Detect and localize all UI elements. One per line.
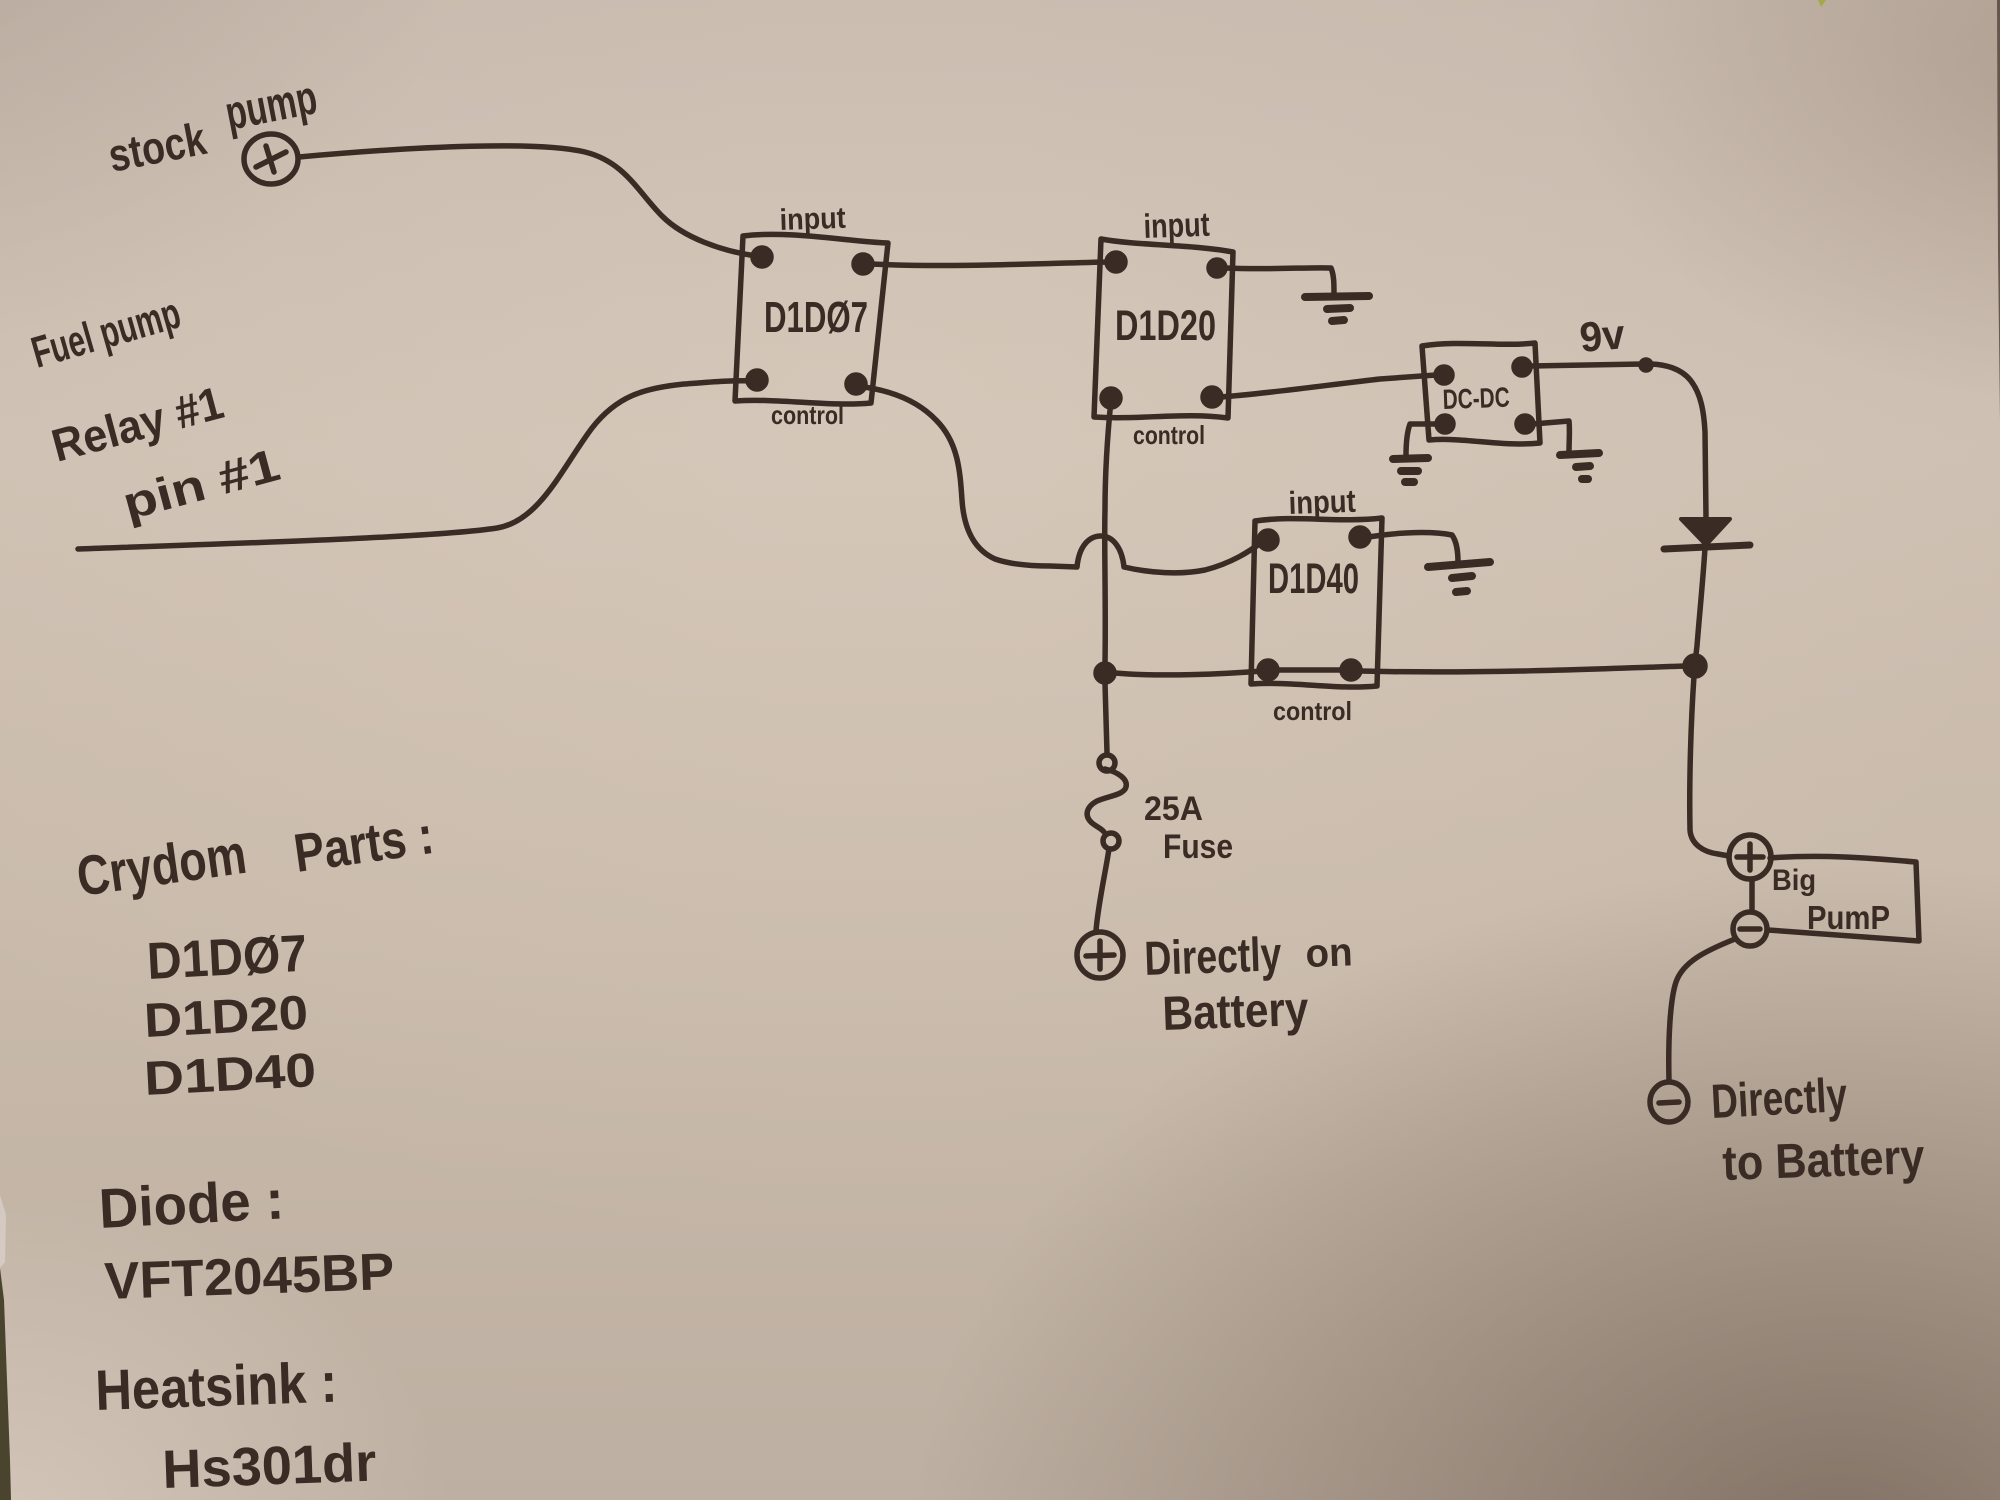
U4 pin out-right (1514, 359, 1530, 375)
diode D1 (cathode down) (1681, 519, 1730, 545)
wire D1D07 input-right to D1D20 input-left (871, 262, 1108, 266)
converter U4 DC-DC box (1422, 343, 1540, 444)
svg-text:Crydom: Crydom (73, 822, 250, 908)
ground G3 (left below DC-DC) (1393, 458, 1428, 482)
terminal big pump - (1733, 912, 1767, 946)
relay U2 D1D20 box (1094, 239, 1233, 418)
svg-text:Battery: Battery (1162, 983, 1310, 1041)
wire junction A down to big pump + (1690, 676, 1729, 856)
node on 9v wire (1641, 360, 1651, 370)
U1 pin input-right (854, 255, 872, 273)
svg-text:to Battery: to Battery (1721, 1130, 1925, 1191)
U2 pin input-right (1209, 260, 1225, 276)
terminal battery - (1650, 1082, 1688, 1122)
U2 pin input-left (1107, 253, 1125, 271)
wire D1D40 input-right to ground (1368, 533, 1458, 563)
svg-text:Heatsink :: Heatsink : (94, 1351, 338, 1423)
svg-text:D1D40: D1D40 (1268, 555, 1359, 603)
node junction A (diode/control bus) (1685, 656, 1705, 676)
svg-text:D1DØ7: D1DØ7 (146, 925, 309, 991)
svg-text:input: input (779, 202, 846, 237)
wire 9v: DC-DC out to diode anode (1530, 364, 1706, 517)
wire stock pump to D1D07 input left (299, 146, 756, 256)
U3 pin input-left (1259, 531, 1277, 549)
svg-text:Big: Big (1772, 864, 1816, 897)
svg-text:pump: pump (221, 71, 321, 141)
wire junction B to D1D40 control-left (1115, 671, 1262, 675)
wire fuel pump relay to D1D07 control left (78, 381, 755, 549)
wire D1D20 control-right to DC-DC input (1220, 375, 1436, 397)
big pump box (1768, 856, 1919, 941)
svg-text:D1DØ7: D1DØ7 (764, 293, 868, 342)
wire DC-DC gnd-right to ground (1533, 421, 1569, 452)
fuse F1 25A (1087, 755, 1126, 931)
wire D1D20 control-left down through hop to junction B (1105, 400, 1111, 664)
U2 pin control-right (1203, 388, 1221, 406)
U1 pin control-left (748, 371, 766, 389)
terminal big pump + (1729, 835, 1771, 879)
U1 pin control-right (847, 375, 865, 393)
svg-text:25A: 25A (1144, 790, 1203, 828)
svg-text:on: on (1305, 930, 1354, 976)
svg-text:Fuel pump: Fuel pump (26, 289, 186, 378)
ground G4 (right below DC-DC) (1560, 453, 1599, 479)
U2 pin control-left (1102, 389, 1120, 407)
U1 pin input-left (753, 248, 771, 266)
svg-text:PumP: PumP (1807, 899, 1890, 936)
wire big pump - to battery - terminal (1669, 939, 1735, 1081)
relay U1 D1D07 box (735, 234, 888, 404)
svg-text:control: control (1273, 696, 1352, 726)
U3 pin control-right (1342, 661, 1360, 679)
U4 pin gnd-left (1437, 416, 1453, 432)
U4 pin gnd-right (1517, 416, 1533, 432)
wire D1D20 input-right to ground (1225, 268, 1334, 294)
terminal stock pump + (244, 134, 298, 184)
wire D1D40 control-left to control-right (through box) (1268, 667, 1351, 673)
paper edge right top (1997, 0, 2000, 420)
svg-text:D1D20: D1D20 (1115, 302, 1216, 350)
svg-text:Hs301dr: Hs301dr (161, 1433, 377, 1500)
svg-text:pin #1: pin #1 (117, 438, 285, 530)
wire diode cathode to junction (1695, 548, 1705, 663)
svg-text:DC-DC: DC-DC (1442, 382, 1510, 415)
U3 pin control-left (1259, 661, 1277, 679)
svg-text:D1D20: D1D20 (143, 986, 310, 1048)
relay U3 D1D40 box (1251, 518, 1382, 687)
svg-text:Fuse: Fuse (1163, 828, 1233, 866)
ground G2 (right of D1D40) (1428, 562, 1490, 592)
U4 pin in-left (1436, 367, 1452, 383)
svg-text:Directly: Directly (1710, 1069, 1849, 1129)
svg-text:D1D40: D1D40 (143, 1044, 318, 1106)
wire control bus: junction A to D1D40 control-right (1360, 666, 1685, 672)
svg-text:stock: stock (104, 112, 210, 182)
ground G1 (right of D1D20) (1305, 296, 1369, 321)
svg-text:Parts :: Parts : (290, 805, 437, 884)
paper edge sliver bottom-left (0, 1268, 11, 1500)
svg-text:9v: 9v (1578, 310, 1628, 361)
wire between big pump + and - (1749, 879, 1755, 912)
U3 pin input-right (1351, 528, 1369, 546)
svg-text:control: control (1133, 420, 1205, 450)
svg-text:input: input (1288, 483, 1357, 521)
wire junction B down to fuse (1105, 683, 1107, 753)
svg-text:control: control (771, 400, 844, 430)
svg-text:input: input (1143, 206, 1210, 246)
terminal battery + (fuse side) (1077, 932, 1123, 978)
svg-text:Diode :: Diode : (97, 1167, 285, 1240)
svg-text:VFT2045BP: VFT2045BP (103, 1243, 395, 1311)
node junction B (fuse tap) (1096, 664, 1114, 682)
wire DC-DC gnd-left to ground (1406, 424, 1437, 456)
svg-text:Directly: Directly (1144, 928, 1283, 986)
wire D1D07 control-right to D1D40 input-left (hops over vertical wire) (856, 386, 1262, 573)
